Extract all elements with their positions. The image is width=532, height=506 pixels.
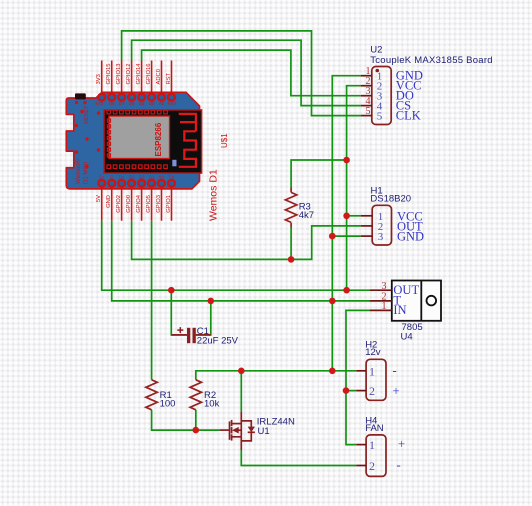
svg-text:D6: D6 <box>129 101 135 106</box>
svg-text:12v: 12v <box>365 347 381 358</box>
connector H1 DS18B20 <box>361 186 424 246</box>
svg-text:ADC0: ADC0 <box>156 69 162 84</box>
resistor R3 4k7 <box>285 188 314 228</box>
junction drain <box>238 368 245 375</box>
junction C1 minus <box>208 298 215 305</box>
wire gate rail R1 bottom to MOSFET gate <box>152 410 220 430</box>
junction R3 bottom <box>288 256 295 263</box>
svg-text:GPIO1: GPIO1 <box>166 195 172 213</box>
wire C1 plus lead <box>171 290 187 335</box>
wire GND rail from Wemos GND to 7805 T <box>112 221 370 301</box>
svg-text:IN: IN <box>393 303 406 317</box>
svg-text:2: 2 <box>369 459 375 473</box>
svg-text:RST: RST <box>166 72 172 84</box>
wire 12V down to H4 pin1 <box>346 391 356 445</box>
svg-text:DS18B20: DS18B20 <box>370 194 411 205</box>
junction R2 bottom <box>193 427 200 434</box>
wire GPIO5 to R1 top <box>151 221 153 380</box>
svg-text:22uF 25V: 22uF 25V <box>197 336 239 347</box>
svg-text:1: 1 <box>369 364 375 378</box>
wire R3 top to VCC vertical <box>291 160 347 188</box>
svg-text:3V3: 3V3 <box>96 74 102 84</box>
svg-text:GPIO13: GPIO13 <box>116 64 122 85</box>
resistor R2 10k <box>190 380 219 410</box>
resistor R1 100 <box>146 380 176 410</box>
esp antenna <box>179 114 196 167</box>
transistor U1 IRLZ44N MOSFET <box>220 412 255 450</box>
wire VCC to H1 pin1 <box>347 215 361 217</box>
svg-text:D7: D7 <box>119 101 125 106</box>
wire GPIO12 to U2 CS <box>132 40 361 105</box>
junction dots <box>168 157 350 434</box>
svg-text:D4: D4 <box>119 175 125 180</box>
svg-text:+: + <box>398 437 405 451</box>
svg-text:TX: TX <box>169 175 175 180</box>
svg-text:GPIO2: GPIO2 <box>116 195 122 213</box>
junction R3 top / VCC <box>343 157 350 164</box>
svg-text:D5: D5 <box>139 101 145 106</box>
svg-text:CLK: CLK <box>396 108 421 122</box>
svg-text:A0: A0 <box>159 101 165 106</box>
junction 7805 T GND <box>329 298 336 305</box>
svg-text:U1: U1 <box>258 426 270 437</box>
svg-text:D3: D3 <box>129 175 135 180</box>
pin leads top <box>102 61 172 95</box>
silk pin names top <box>95 101 177 106</box>
svg-text:GPIO15: GPIO15 <box>106 64 112 85</box>
connector H2 12v <box>356 340 399 401</box>
junction H2 12V <box>343 387 350 394</box>
pin leads bottom <box>102 187 172 221</box>
svg-text:GPIO16: GPIO16 <box>146 64 152 85</box>
svg-text:5V: 5V <box>99 175 105 180</box>
wire drain tap <box>240 371 242 412</box>
wire GPIO13 to U2 CLK <box>122 31 361 116</box>
svg-text:+: + <box>393 384 400 398</box>
capacitor C1 22uF 25V <box>171 326 238 347</box>
junction C1 plus <box>168 287 175 294</box>
svg-text:Wemos D1: Wemos D1 <box>208 169 220 221</box>
svg-text:D0: D0 <box>149 101 155 106</box>
svg-text:1: 1 <box>382 301 387 312</box>
svg-text:U4: U4 <box>401 332 413 343</box>
svg-text:GPIO5: GPIO5 <box>146 195 152 213</box>
svg-text:GPIO4: GPIO4 <box>136 194 142 212</box>
pads bottom row <box>98 180 175 187</box>
svg-text:5: 5 <box>377 111 383 123</box>
pin labels top <box>96 63 172 85</box>
svg-text:GPIO14: GPIO14 <box>136 63 142 85</box>
wire GND U2 pin1 down rail <box>332 76 360 371</box>
wire 5V rail from Wemos 5V to 7805 OUT <box>102 221 370 291</box>
svg-text:D1: D1 <box>149 175 155 180</box>
svg-text:GND: GND <box>397 230 424 244</box>
svg-text:U2: U2 <box>370 45 382 56</box>
svg-text:4k7: 4k7 <box>299 210 314 221</box>
wire C1 minus lead <box>196 301 211 335</box>
svg-text:5: 5 <box>366 106 371 117</box>
wire GND to H1 pin3 <box>332 235 360 237</box>
svg-text:U$1: U$1 <box>220 133 229 148</box>
esp led <box>172 160 176 167</box>
svg-text:RESET: RESET <box>84 105 90 124</box>
svg-text:3: 3 <box>382 281 387 292</box>
wire source to H4 pin2 <box>241 450 356 466</box>
svg-text:D8: D8 <box>109 101 115 106</box>
svg-text:GPIO0: GPIO0 <box>126 195 132 213</box>
svg-text:-: - <box>397 458 401 472</box>
junction GND H2 rail <box>329 368 336 375</box>
svg-text:ESP8266: ESP8266 <box>154 122 163 156</box>
wire VCC vertical U2 pin2 to 5V rail <box>347 86 361 291</box>
svg-text:1: 1 <box>369 438 375 452</box>
esp pads <box>107 110 167 168</box>
svg-text:3V3: 3V3 <box>95 101 104 106</box>
svg-text:D2: D2 <box>139 175 145 180</box>
pads top row <box>98 94 175 101</box>
wire R3 bottom lead <box>290 228 292 260</box>
wire data GPIO0 to R3 bottom to H1 OUT <box>132 221 361 260</box>
esp shield gray <box>109 116 170 159</box>
junction H1 VCC <box>343 213 350 220</box>
svg-text:10k: 10k <box>204 399 220 410</box>
wire R2 bottom lead <box>195 410 197 430</box>
svg-text:G: G <box>110 175 114 180</box>
svg-text:FAN: FAN <box>365 423 384 434</box>
svg-text:3: 3 <box>378 231 384 243</box>
svg-text:RST: RST <box>168 101 177 106</box>
board vias <box>75 101 100 168</box>
svg-text:D1 MINI: D1 MINI <box>84 162 90 184</box>
silk pin names bottom <box>99 175 174 180</box>
svg-text:GPIO12: GPIO12 <box>126 64 132 85</box>
connector U2 TcoupleK MAX31855 Board <box>361 45 493 125</box>
svg-text:5V: 5V <box>96 195 102 202</box>
board body <box>66 92 199 189</box>
esp module black <box>104 110 202 173</box>
svg-text:100: 100 <box>160 399 176 410</box>
svg-text:2: 2 <box>369 384 375 398</box>
svg-text:-: - <box>393 364 397 378</box>
svg-text:TcoupleK MAX31855 Board: TcoupleK MAX31855 Board <box>370 55 492 66</box>
wire 12V H2 pin2 to 7805 IN and H4 pin1 <box>346 310 370 390</box>
connector H4 FAN <box>356 416 405 477</box>
svg-text:RX: RX <box>158 175 164 180</box>
svg-text:Wemos®: Wemos® <box>75 159 82 184</box>
junction H1 GND <box>329 233 336 240</box>
module Wemos D1 mini board <box>66 61 229 222</box>
pin labels bottom <box>96 194 172 212</box>
usb connector <box>75 93 86 99</box>
svg-text:GND: GND <box>106 195 112 208</box>
svg-text:GPIO3: GPIO3 <box>156 195 162 213</box>
regulator U4 7805 <box>370 281 441 343</box>
wire GPIO14 to U2 DO <box>142 50 361 96</box>
wire GND rail to H2 pin1 with R2 top <box>196 371 356 380</box>
junction VCC 5V rail <box>343 287 350 294</box>
